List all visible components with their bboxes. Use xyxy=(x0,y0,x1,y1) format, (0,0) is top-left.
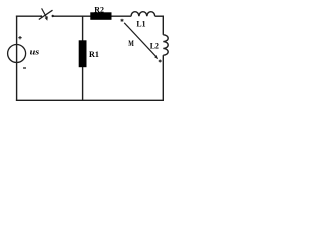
inductor L1 coil xyxy=(131,12,155,17)
svg-text:L2: L2 xyxy=(150,41,159,50)
coupling asterisk at L2 xyxy=(159,59,162,62)
wire switch to R2 xyxy=(53,15,91,17)
svg-text:R2: R2 xyxy=(94,5,104,14)
mutual inductance arrow head xyxy=(154,55,158,59)
voltage source us circle xyxy=(8,45,26,63)
svg-text:M: M xyxy=(128,39,134,48)
svg-text:R1: R1 xyxy=(89,50,99,59)
switch left contact dot xyxy=(40,15,42,17)
plus sign of source xyxy=(18,36,21,39)
switch arrow head xyxy=(45,16,48,20)
minus sign of source xyxy=(23,67,26,69)
wire right upper xyxy=(162,16,164,35)
wire L1 to top-right corner xyxy=(155,15,164,17)
wire bottom xyxy=(16,99,164,101)
wire middle branch upper xyxy=(82,16,84,40)
wire top-left segment xyxy=(16,15,41,17)
voltage source internal lead xyxy=(16,45,18,63)
resistor R1 body xyxy=(79,40,87,67)
svg-text:L1: L1 xyxy=(136,20,145,29)
switch actuation arrow shaft xyxy=(42,8,47,17)
switch right contact dot xyxy=(52,15,54,17)
resistor R2 body xyxy=(90,12,111,19)
wire middle branch lower xyxy=(82,67,84,101)
wire left upper xyxy=(16,16,18,45)
wire R2 to L1 xyxy=(111,15,131,17)
svg-text:us: us xyxy=(30,48,40,57)
mutual inductance arrow shaft M xyxy=(124,23,155,56)
switch S blade xyxy=(39,10,53,19)
wire left lower xyxy=(16,63,18,102)
inductor L2 coil xyxy=(163,35,168,55)
wire right lower xyxy=(162,55,164,101)
coupling asterisk at L1 xyxy=(121,19,124,22)
